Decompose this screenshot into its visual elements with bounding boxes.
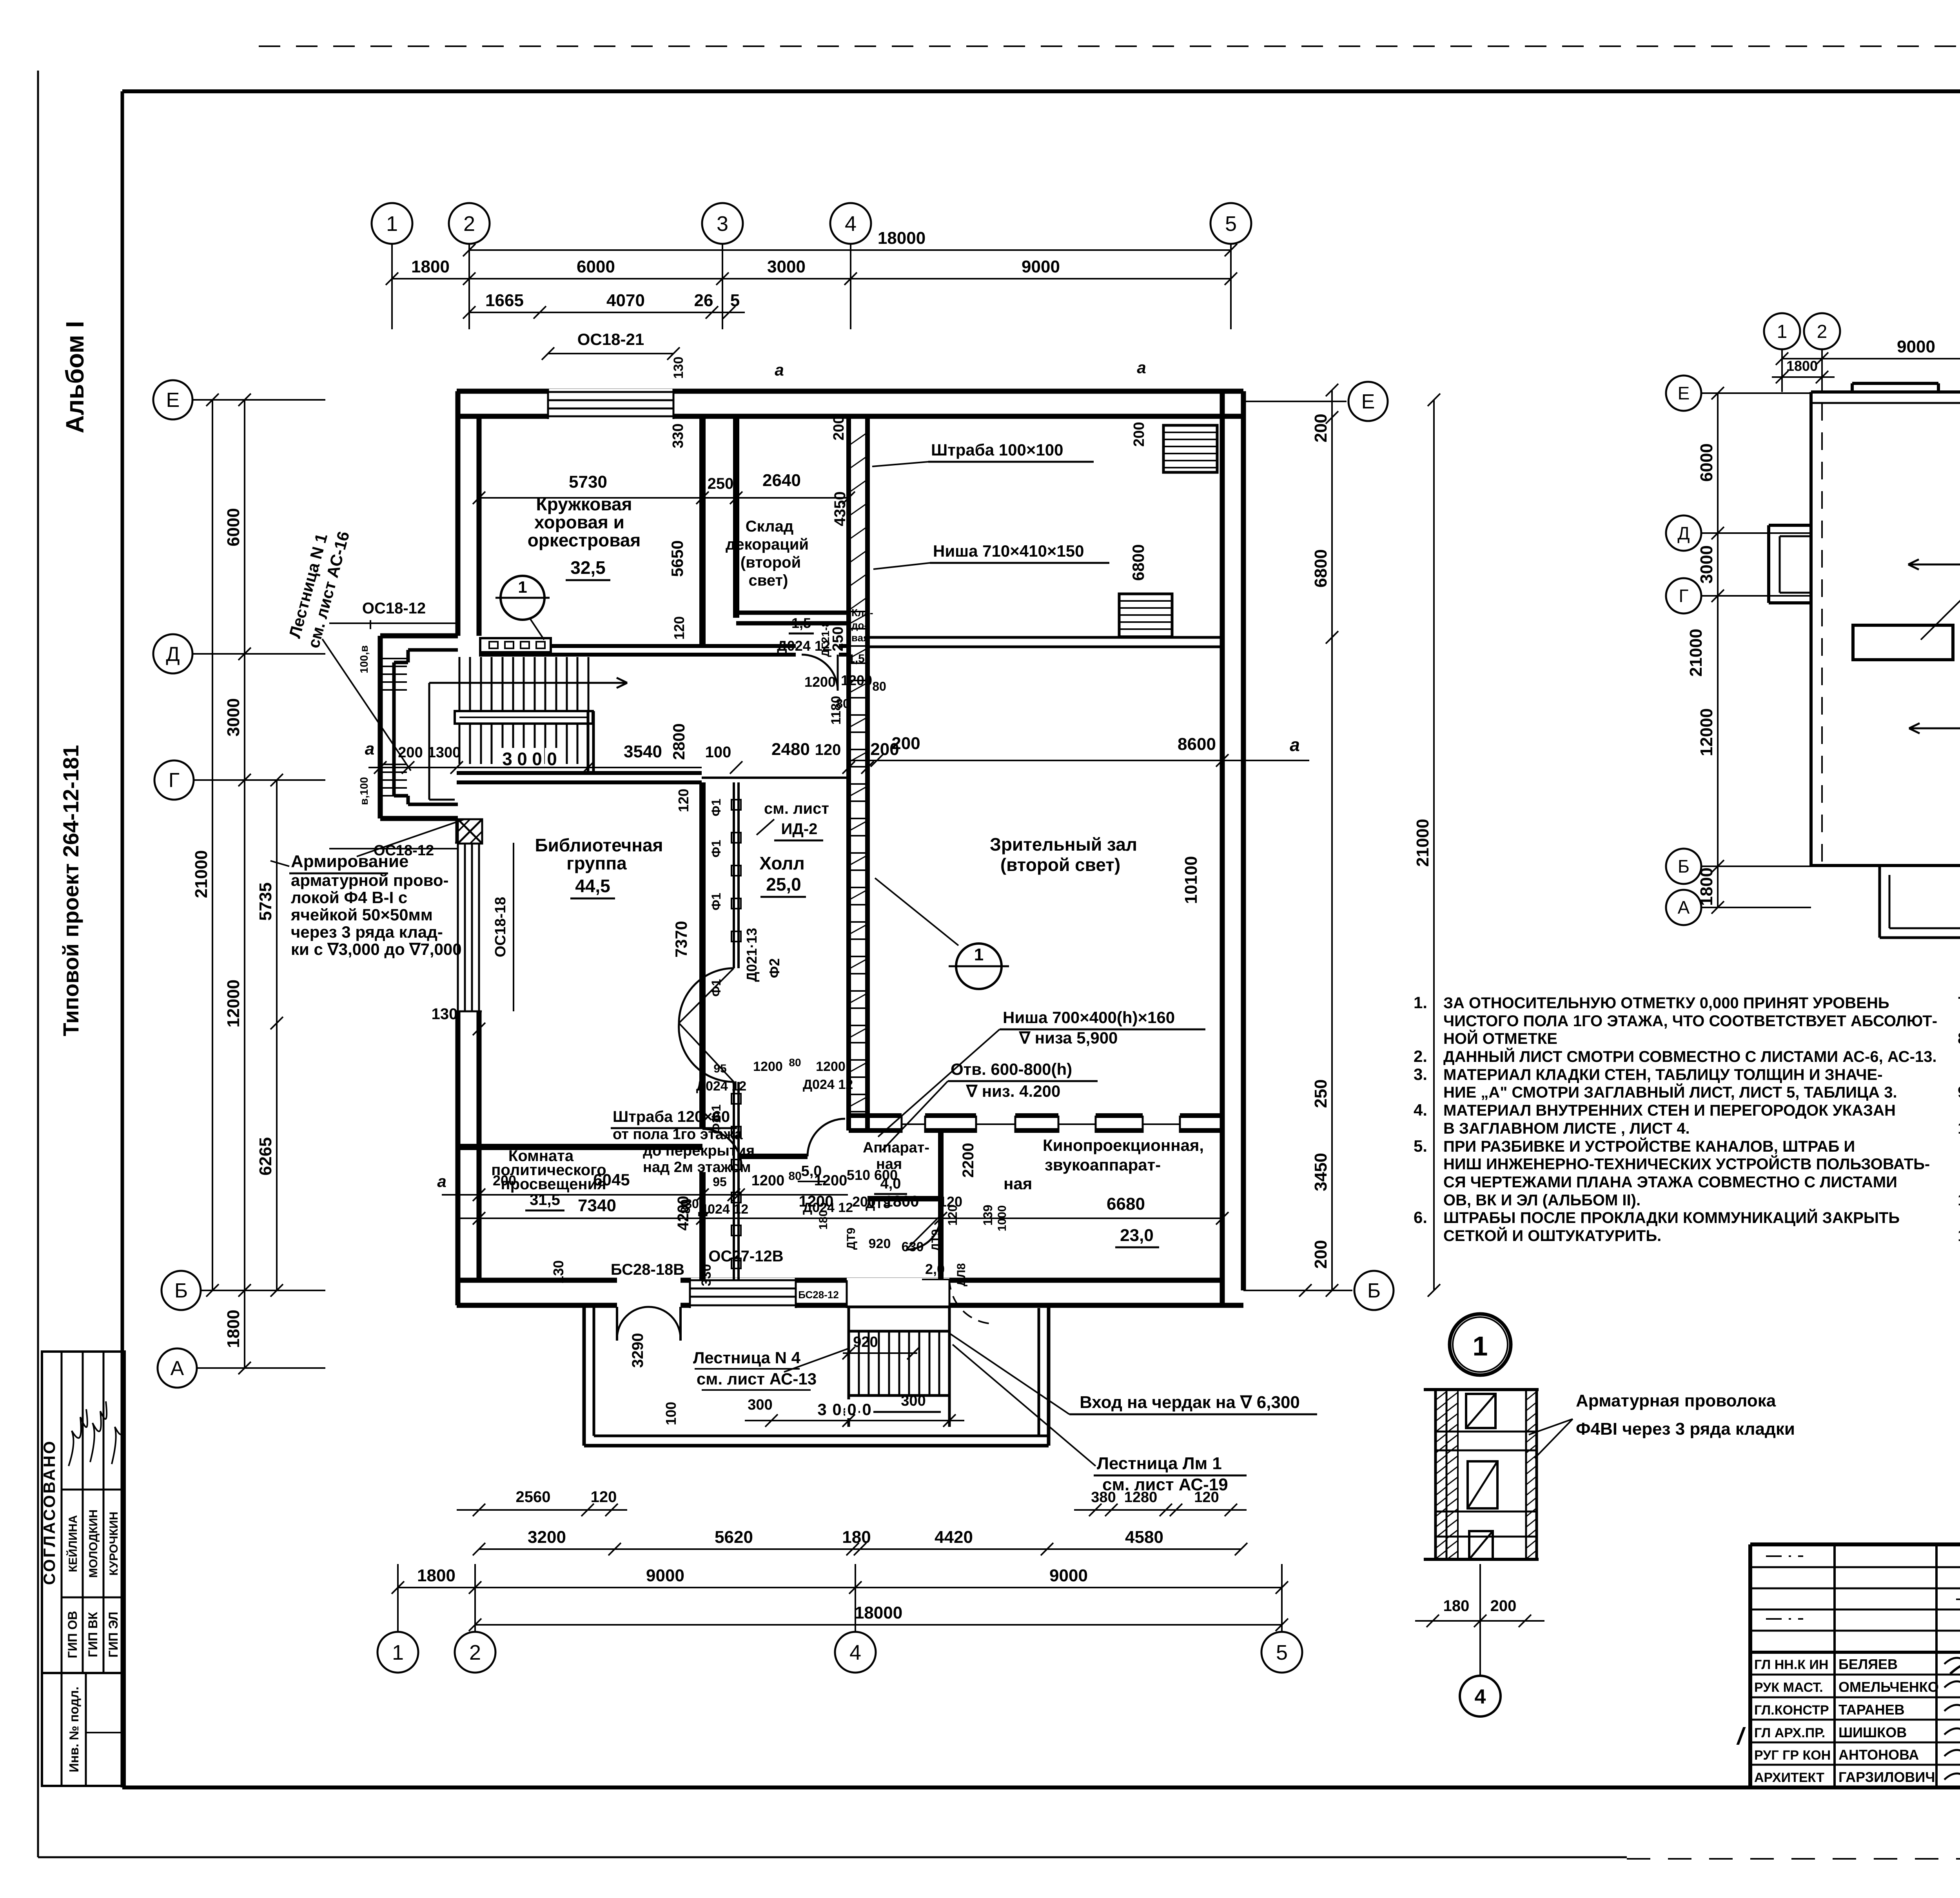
svg-text:6000: 6000 [577, 257, 615, 276]
svg-text:ДЛ8: ДЛ8 [955, 1263, 968, 1286]
svg-text:∇ низа 5,900: ∇ низа 5,900 [1018, 1029, 1118, 1047]
svg-text:5735: 5735 [256, 882, 275, 921]
svg-text:СОГЛАСОВАНО: СОГЛАСОВАНО [40, 1440, 58, 1585]
svg-text:31,5: 31,5 [530, 1191, 560, 1208]
svg-text:Е: Е [166, 389, 180, 412]
svg-text:1: 1 [1777, 321, 1788, 342]
svg-text:Г: Г [1679, 586, 1689, 606]
svg-text:12.: 12. [1958, 1226, 1960, 1245]
svg-text:1800: 1800 [417, 1566, 456, 1585]
svg-text:КУРОЧКИН: КУРОЧКИН [107, 1512, 120, 1575]
svg-text:5620: 5620 [715, 1528, 753, 1547]
svg-text:9000: 9000 [1049, 1566, 1088, 1585]
svg-text:Б: Б [1678, 856, 1690, 876]
svg-text:9000: 9000 [1897, 337, 1935, 356]
svg-text:группа: группа [566, 853, 627, 873]
svg-text:СЯ ЧЕРТЕЖАМИ ПЛАНА ЭТАЖА СОВМЕ: СЯ ЧЕРТЕЖАМИ ПЛАНА ЭТАЖА СОВМЕСТНО С ЛИС… [1443, 1174, 1897, 1191]
svg-text:18000: 18000 [855, 1603, 902, 1622]
svg-text:2: 2 [1817, 321, 1828, 342]
svg-text:0: 0 [547, 749, 557, 769]
svg-text:декораций: декораций [726, 536, 809, 553]
svg-text:300: 300 [748, 1397, 772, 1413]
svg-text:2.: 2. [1414, 1047, 1427, 1065]
svg-text:1: 1 [974, 945, 984, 964]
svg-text:ГЛ АРХ.ПР.: ГЛ АРХ.ПР. [1754, 1726, 1825, 1740]
svg-text:510 600: 510 600 [847, 1167, 898, 1183]
svg-text:8.: 8. [1958, 1029, 1960, 1047]
svg-text:(второй: (второй [740, 554, 801, 571]
svg-text:ПРИ РАЗБИВКЕ И УСТРОЙСТВЕ КАНА: ПРИ РАЗБИВКЕ И УСТРОЙСТВЕ КАНАЛОВ, ШТРАБ… [1443, 1137, 1855, 1155]
svg-text:25,0: 25,0 [766, 874, 801, 895]
svg-text:2560: 2560 [516, 1488, 551, 1506]
svg-text:Д: Д [1677, 523, 1690, 543]
svg-text:Лестница Лм 1: Лестница Лм 1 [1097, 1454, 1222, 1473]
svg-text:5: 5 [730, 291, 740, 310]
svg-text:3000: 3000 [224, 698, 243, 737]
svg-text:21000: 21000 [1413, 819, 1432, 867]
svg-text:a: a [1137, 358, 1146, 377]
svg-text:2,0: 2,0 [925, 1261, 945, 1277]
svg-text:БС28-12: БС28-12 [798, 1289, 839, 1301]
svg-text:6800: 6800 [1311, 549, 1330, 588]
svg-text:хоровая и: хоровая и [534, 512, 624, 532]
svg-text:Арматурная проволока: Арматурная проволока [1576, 1391, 1776, 1410]
svg-text:180: 180 [817, 1210, 830, 1230]
svg-text:Лестница N 4: Лестница N 4 [693, 1348, 801, 1367]
svg-text:200: 200 [493, 1172, 516, 1189]
svg-text:6045: 6045 [593, 1170, 630, 1189]
svg-text:ГЛ НН.К ИН: ГЛ НН.К ИН [1754, 1657, 1828, 1672]
svg-text:Ниша 710×410×150: Ниша 710×410×150 [933, 542, 1084, 560]
svg-text:Склад: Склад [746, 518, 793, 535]
svg-text:Ф1: Ф1 [709, 893, 723, 910]
svg-text:7340: 7340 [578, 1196, 616, 1215]
svg-text:СЕТКОЙ И ОШТУКАТУРИТЬ.: СЕТКОЙ И ОШТУКАТУРИТЬ. [1443, 1227, 1661, 1245]
svg-text:a: a [365, 739, 374, 758]
svg-text:7.: 7. [1958, 993, 1960, 1012]
svg-text:300: 300 [901, 1393, 926, 1409]
svg-text:1200: 1200 [753, 1059, 783, 1074]
svg-text:Инв. № подл.: Инв. № подл. [67, 1687, 81, 1773]
svg-text:0: 0 [532, 749, 542, 769]
svg-text:26: 26 [694, 291, 713, 310]
svg-text:просвещения: просвещения [501, 1176, 606, 1193]
svg-text:над 2м этажом: над 2м этажом [643, 1159, 751, 1176]
svg-text:1,5: 1,5 [791, 615, 811, 631]
svg-text:А: А [171, 1357, 184, 1380]
svg-text:1200: 1200 [799, 1193, 834, 1210]
svg-text:ГАРЗИЛОВИЧ: ГАРЗИЛОВИЧ [1838, 1769, 1935, 1785]
svg-text:200: 200 [1131, 422, 1147, 446]
svg-text:Д024 12: Д024 12 [777, 638, 830, 654]
svg-text:120: 120 [591, 1488, 617, 1506]
svg-text:ДТ9: ДТ9 [929, 1229, 942, 1251]
svg-text:вая: вая [851, 632, 869, 644]
svg-text:6000: 6000 [224, 508, 243, 546]
svg-text:см. лист АС-19: см. лист АС-19 [1102, 1475, 1228, 1494]
svg-text:1800: 1800 [1697, 867, 1716, 906]
svg-text:12000: 12000 [1697, 708, 1716, 756]
svg-text:0: 0 [847, 1400, 856, 1419]
svg-text:200: 200 [852, 1194, 876, 1210]
svg-text:3: 3 [717, 212, 728, 236]
svg-text:Ф1: Ф1 [709, 979, 723, 996]
svg-text:130: 130 [550, 1260, 566, 1284]
svg-text:ГИП ВК: ГИП ВК [86, 1612, 100, 1657]
svg-text:1180: 1180 [829, 696, 844, 725]
svg-text:Ф1: Ф1 [709, 1116, 723, 1134]
svg-text:250: 250 [1311, 1079, 1330, 1108]
svg-text:120: 120 [815, 741, 841, 758]
svg-text:1665: 1665 [485, 291, 524, 310]
svg-text:РУК МАСТ.: РУК МАСТ. [1754, 1680, 1823, 1695]
svg-text:1800: 1800 [224, 1310, 243, 1348]
svg-text:200: 200 [870, 740, 899, 759]
svg-text:звукоаппарат-: звукоаппарат- [1045, 1156, 1161, 1174]
svg-text:2: 2 [463, 212, 475, 236]
svg-text:120: 120 [946, 1205, 960, 1225]
svg-text:Кинопроекционная,: Кинопроекционная, [1043, 1136, 1204, 1154]
svg-text:1: 1 [1473, 1331, 1488, 1361]
svg-text:МАТЕРИАЛ КЛАДКИ СТЕН, ТАБЛИЦУ: МАТЕРИАЛ КЛАДКИ СТЕН, ТАБЛИЦУ ТОЛЩИН И З… [1443, 1066, 1883, 1083]
svg-text:95: 95 [713, 1062, 726, 1075]
svg-text:ячейкой 50×50мм: ячейкой 50×50мм [290, 905, 433, 924]
svg-text:100,в: 100,в [358, 645, 370, 673]
svg-text:Кружковая: Кружковая [536, 494, 632, 514]
svg-text:Б: Б [174, 1279, 188, 1302]
svg-text:3290: 3290 [629, 1333, 646, 1368]
svg-text:ИД-2: ИД-2 [781, 820, 818, 838]
svg-text:ДАННЫЙ ЛИСТ СМОТРИ СОВМЕСТНО С: ДАННЫЙ ЛИСТ СМОТРИ СОВМЕСТНО С ЛИСТАМИ А… [1443, 1047, 1937, 1065]
svg-text:3.: 3. [1414, 1065, 1427, 1083]
svg-text:от пола 1го этажа: от пола 1го этажа [613, 1126, 743, 1143]
svg-text:80: 80 [788, 1170, 801, 1183]
svg-text:РУГ ГР КОН: РУГ ГР КОН [1754, 1748, 1831, 1763]
svg-text:21000: 21000 [192, 850, 211, 898]
svg-text:Г: Г [169, 769, 180, 792]
svg-text:1: 1 [386, 212, 398, 236]
svg-text:200: 200 [1490, 1597, 1517, 1615]
svg-text:Д024 12: Д024 12 [696, 1079, 746, 1094]
svg-text:НИЕ „А" СМОТРИ ЗАГЛАВНЫЙ ЛИСТ,: НИЕ „А" СМОТРИ ЗАГЛАВНЫЙ ЛИСТ, ЛИСТ 5, Т… [1443, 1083, 1897, 1101]
svg-text:НИШ ИНЖЕНЕРНО-ТЕХНИЧЕСКИХ УСТР: НИШ ИНЖЕНЕРНО-ТЕХНИЧЕСКИХ УСТРОЙСТВ ПОЛЬ… [1443, 1155, 1930, 1173]
svg-text:ШТРАБЫ ПОСЛЕ ПРОКЛАДКИ КОММУНИ: ШТРАБЫ ПОСЛЕ ПРОКЛАДКИ КОММУНИКАЦИЙ ЗАКР… [1443, 1208, 1900, 1227]
svg-text:Штраба 100×100: Штраба 100×100 [931, 441, 1063, 459]
svg-text:Е: Е [1678, 383, 1690, 403]
svg-text:130: 130 [671, 357, 686, 379]
svg-text:5730: 5730 [569, 472, 607, 492]
svg-text:Ф1: Ф1 [709, 798, 723, 816]
svg-text:a: a [775, 361, 784, 379]
svg-text:21000: 21000 [1686, 629, 1706, 677]
svg-text:Армирование: Армирование [291, 852, 408, 871]
svg-text:3: 3 [817, 1400, 826, 1419]
svg-text:4580: 4580 [1125, 1528, 1163, 1547]
svg-text:Д021·13: Д021·13 [744, 928, 760, 982]
svg-text:3000: 3000 [1697, 545, 1716, 584]
svg-text:130: 130 [432, 1005, 458, 1023]
svg-text:6000: 6000 [1697, 443, 1716, 482]
svg-text:120: 120 [675, 789, 691, 812]
svg-text:до перекрытия: до перекрытия [643, 1143, 755, 1159]
svg-text:Аппарат-: Аппарат- [863, 1140, 929, 1156]
svg-text:МАТЕРИАЛ ВНУТРЕННИХ СТЕН И ПЕР: МАТЕРИАЛ ВНУТРЕННИХ СТЕН И ПЕРЕГОРОДОК У… [1443, 1102, 1896, 1119]
svg-text:в,100: в,100 [358, 777, 370, 805]
svg-text:А: А [1678, 897, 1690, 918]
svg-text:80: 80 [872, 679, 886, 693]
svg-text:1200: 1200 [751, 1172, 785, 1189]
svg-text:ная: ная [1004, 1174, 1032, 1193]
svg-text:оркестровая: оркестровая [528, 530, 641, 550]
svg-text:В ЗАГЛАВНОМ ЛИСТЕ , ЛИСТ 4.: В ЗАГЛАВНОМ ЛИСТЕ , ЛИСТ 4. [1443, 1120, 1690, 1137]
svg-text:100: 100 [663, 1402, 679, 1425]
svg-text:Зрительный зал: Зрительный зал [990, 834, 1137, 855]
svg-text:18000: 18000 [878, 229, 926, 248]
svg-text:3450: 3450 [1311, 1153, 1330, 1191]
svg-text:2200: 2200 [960, 1143, 977, 1178]
svg-text:ШИШКОВ: ШИШКОВ [1838, 1724, 1907, 1740]
svg-text:9: 9 [1958, 1083, 1960, 1101]
svg-text:1000: 1000 [996, 1205, 1009, 1232]
svg-text:ОС27-12В: ОС27-12В [708, 1248, 783, 1265]
svg-text:6800: 6800 [1129, 544, 1147, 581]
svg-text:см. лист АС-13: см. лист АС-13 [697, 1370, 817, 1388]
svg-text:95: 95 [713, 1175, 727, 1189]
svg-text:Д024 12: Д024 12 [803, 1077, 853, 1092]
svg-text:100: 100 [705, 744, 731, 761]
svg-text:1300: 1300 [428, 744, 461, 761]
svg-text:Холл: Холл [759, 853, 804, 873]
svg-text:120: 120 [671, 616, 687, 640]
svg-text:АНТОНОВА: АНТОНОВА [1838, 1747, 1919, 1763]
svg-text:330: 330 [670, 423, 686, 448]
svg-text:6680: 6680 [1107, 1194, 1145, 1214]
svg-text:10.: 10. [1958, 1119, 1960, 1137]
svg-text:80: 80 [685, 1197, 699, 1211]
svg-text:1200: 1200 [841, 672, 872, 688]
svg-text:Ниша 700×400(h)×160: Ниша 700×400(h)×160 [1003, 1008, 1175, 1027]
svg-text:3200: 3200 [528, 1528, 566, 1547]
svg-text:11.: 11. [1958, 1190, 1960, 1209]
svg-text:5.: 5. [1414, 1137, 1427, 1155]
svg-text:3000: 3000 [767, 257, 806, 276]
svg-text:4350: 4350 [831, 492, 849, 526]
svg-text:4420: 4420 [935, 1528, 973, 1547]
svg-text:ОС18-21: ОС18-21 [577, 330, 644, 348]
svg-text:2480: 2480 [771, 740, 810, 759]
svg-text:ОВ, ВК И ЭЛ (АЛЬБОМ II).: ОВ, ВК И ЭЛ (АЛЬБОМ II). [1443, 1192, 1641, 1209]
svg-text:9000: 9000 [646, 1566, 684, 1585]
svg-text:3: 3 [502, 749, 512, 769]
svg-text:ГЛ.КОНСТР: ГЛ.КОНСТР [1754, 1703, 1829, 1718]
svg-text:0: 0 [862, 1400, 871, 1419]
svg-text:5: 5 [1276, 1641, 1288, 1664]
svg-text:БЕЛЯЕВ: БЕЛЯЕВ [1838, 1656, 1898, 1672]
svg-text:180: 180 [842, 1528, 871, 1547]
svg-text:БС28-18В: БС28-18В [611, 1261, 684, 1278]
svg-text:44,5: 44,5 [575, 876, 610, 896]
svg-text:0: 0 [832, 1400, 841, 1419]
svg-text:200: 200 [831, 416, 847, 440]
svg-text:250: 250 [708, 475, 734, 492]
svg-text:2: 2 [469, 1641, 481, 1664]
svg-text:1,5: 1,5 [848, 652, 865, 665]
svg-text:ОС18-18: ОС18-18 [492, 897, 509, 957]
svg-text:5: 5 [1225, 212, 1237, 236]
svg-text:180: 180 [1443, 1597, 1470, 1615]
svg-text:Вход на чердак на ∇ 6,300: Вход на чердак на ∇ 6,300 [1080, 1393, 1300, 1412]
svg-text:Ф4ВІ через 3 ряда кладки: Ф4ВІ через 3 ряда кладки [1576, 1419, 1795, 1439]
svg-text:4: 4 [845, 212, 857, 236]
svg-text:7370: 7370 [672, 921, 690, 957]
svg-text:8600: 8600 [1178, 735, 1216, 754]
svg-text:2640: 2640 [762, 471, 801, 490]
svg-text:a: a [437, 1172, 446, 1190]
svg-text:см. лист: см. лист [764, 800, 829, 817]
svg-text:250: 250 [830, 626, 846, 651]
svg-text:9000: 9000 [1022, 257, 1060, 276]
svg-text:1200: 1200 [814, 1172, 848, 1189]
svg-text:1800: 1800 [1786, 358, 1818, 374]
svg-text:4.: 4. [1414, 1101, 1427, 1119]
svg-text:4: 4 [1475, 1686, 1486, 1708]
svg-text:4070: 4070 [606, 291, 645, 310]
svg-text:ОС18-12: ОС18-12 [362, 600, 426, 617]
svg-text:23,0: 23,0 [1120, 1226, 1154, 1245]
svg-text:Библиотечная: Библиотечная [535, 835, 663, 855]
svg-text:Отв. 600-800(h): Отв. 600-800(h) [951, 1060, 1072, 1078]
svg-text:ГИП ЭЛ: ГИП ЭЛ [106, 1611, 120, 1657]
svg-text:920: 920 [853, 1334, 878, 1350]
svg-text:6.: 6. [1414, 1208, 1427, 1227]
svg-text:1.: 1. [1414, 993, 1427, 1012]
svg-text:920: 920 [869, 1236, 891, 1251]
svg-text:630: 630 [902, 1239, 924, 1254]
svg-text:∇ низ. 4.200: ∇ низ. 4.200 [965, 1082, 1060, 1100]
svg-text:Д: Д [166, 643, 180, 666]
svg-text:Типовой проект 264-12-181: Типовой проект 264-12-181 [58, 745, 83, 1036]
svg-text:Кла-: Кла- [851, 607, 873, 619]
svg-text:АРХИТЕКТ: АРХИТЕКТ [1754, 1770, 1824, 1785]
svg-text:3540: 3540 [624, 742, 662, 761]
svg-text:НОЙ ОТМЕТКЕ: НОЙ ОТМЕТКЕ [1443, 1029, 1557, 1047]
svg-text:Ф1: Ф1 [709, 840, 723, 857]
svg-text:ЗА ОТНОСИТЕЛЬНУЮ ОТМЕТКУ 0,000: ЗА ОТНОСИТЕЛЬНУЮ ОТМЕТКУ 0,000 ПРИНЯТ УР… [1443, 994, 1889, 1012]
svg-text:139: 139 [981, 1205, 995, 1225]
svg-text:1: 1 [392, 1641, 404, 1664]
svg-text:ТАРАНЕВ: ТАРАНЕВ [1838, 1702, 1905, 1718]
svg-text:ГИП ОВ: ГИП ОВ [65, 1611, 80, 1658]
svg-text:(второй свет): (второй свет) [1000, 855, 1120, 875]
svg-text:200: 200 [1311, 414, 1330, 442]
svg-text:1200: 1200 [816, 1059, 846, 1074]
svg-text:ЧИСТОГО ПОЛА 1ГО ЭТАЖА, ЧТО СО: ЧИСТОГО ПОЛА 1ГО ЭТАЖА, ЧТО СООТВЕТСТВУЕ… [1443, 1013, 1937, 1030]
svg-text:свет): свет) [749, 572, 788, 589]
svg-text:1800: 1800 [884, 1193, 919, 1210]
svg-text:32,5: 32,5 [570, 557, 606, 578]
svg-text:арматурной прово-: арматурной прово- [291, 871, 449, 889]
svg-text:12000: 12000 [224, 980, 243, 1027]
svg-text:МОЛОДКИН: МОЛОДКИН [87, 1510, 100, 1578]
svg-text:1800: 1800 [411, 257, 450, 276]
svg-text:80: 80 [789, 1056, 801, 1069]
svg-text:ки с ∇3,000 до ∇7,000: ки с ∇3,000 до ∇7,000 [291, 940, 462, 958]
svg-text:1200: 1200 [804, 674, 836, 690]
svg-text:0: 0 [517, 749, 527, 769]
svg-text:Ф2: Ф2 [766, 958, 782, 978]
svg-text:5650: 5650 [668, 540, 686, 577]
svg-text:Е: Е [1361, 390, 1375, 413]
svg-text:10100: 10100 [1181, 856, 1201, 904]
svg-text:Альбом I: Альбом I [61, 321, 89, 434]
svg-text:2800: 2800 [670, 723, 688, 760]
svg-text:ОМЕЛЬЧЕНКО: ОМЕЛЬЧЕНКО [1838, 1679, 1939, 1695]
svg-text:КЕЙЛИНА: КЕЙЛИНА [66, 1515, 80, 1572]
svg-text:через 3 ряда клад-: через 3 ряда клад- [291, 923, 443, 941]
svg-text:4: 4 [849, 1641, 861, 1664]
svg-text:6265: 6265 [256, 1137, 275, 1176]
svg-text:ДТ9: ДТ9 [845, 1228, 858, 1250]
svg-text:Б: Б [1367, 1279, 1381, 1302]
svg-text:1: 1 [518, 578, 527, 596]
svg-text:200: 200 [1311, 1240, 1330, 1268]
svg-text:a: a [1290, 735, 1300, 755]
svg-text:до-: до- [851, 619, 867, 631]
svg-text:локой Ф4 В-I с: локой Ф4 В-I с [291, 888, 407, 907]
